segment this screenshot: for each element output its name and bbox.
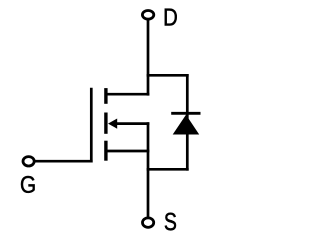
wire drain lead (MOSFET top bar to vertical) bbox=[106, 93, 149, 96]
label G bbox=[21, 176, 35, 193]
wire source lead (MOSFET bottom bar to vertical) bbox=[106, 150, 149, 153]
wire bottom connector to diode anode bbox=[147, 168, 189, 171]
wire source vertical (body junction down to S) bbox=[147, 122, 150, 217]
body diode anode triangle bbox=[173, 115, 200, 135]
body diode vertical wire bbox=[186, 74, 189, 171]
wire drain vertical (D to drain junction) bbox=[147, 19, 150, 96]
terminal G circle bbox=[23, 157, 34, 166]
label S bbox=[165, 213, 176, 231]
channel bar drain segment bbox=[104, 88, 107, 104]
gate line vertical bbox=[90, 88, 93, 163]
channel bar source segment bbox=[104, 141, 107, 161]
wire top connector to diode cathode bbox=[147, 74, 189, 77]
terminal D circle bbox=[142, 11, 153, 20]
label D bbox=[165, 9, 177, 26]
wire body lead (arrow shaft to vertical) bbox=[112, 122, 149, 125]
channel bar body segment bbox=[104, 113, 107, 134]
terminal S circle bbox=[143, 218, 154, 228]
wire gate lead (G circle to gate line) bbox=[35, 160, 93, 163]
body diode cathode bar bbox=[171, 112, 200, 115]
body arrow head bbox=[108, 119, 117, 129]
